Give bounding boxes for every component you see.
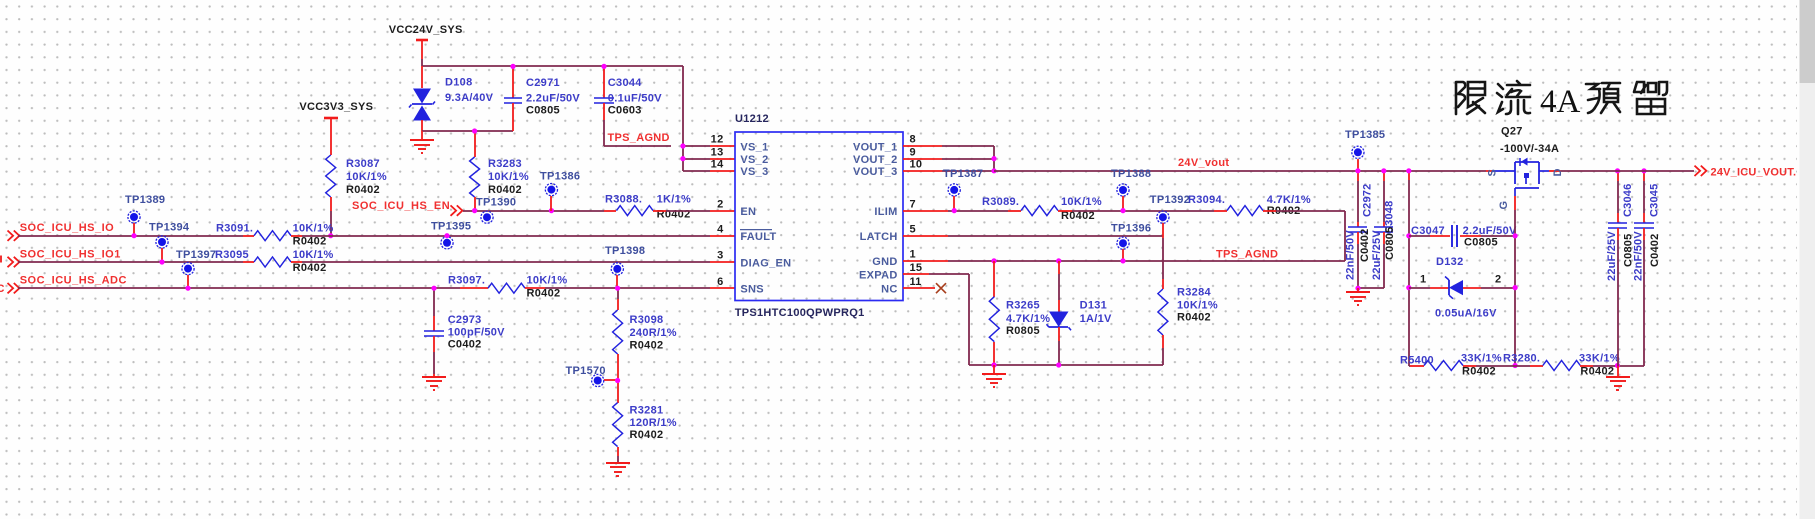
svg-text:TP1385: TP1385: [1345, 129, 1385, 141]
svg-text:R0402: R0402: [527, 288, 561, 300]
svg-text:R3265: R3265: [1006, 300, 1040, 312]
svg-text:C: C: [0, 283, 5, 295]
svg-text:C2973: C2973: [448, 314, 482, 326]
svg-text:2: 2: [1495, 274, 1501, 286]
svg-text:R0805: R0805: [1006, 325, 1040, 337]
svg-text:R3087: R3087: [346, 158, 380, 170]
svg-text:4A: 4A: [1540, 84, 1581, 120]
svg-text:R3095: R3095: [215, 249, 249, 261]
svg-text:0.05uA/16V: 0.05uA/16V: [1435, 307, 1497, 319]
svg-text:C0805: C0805: [526, 105, 560, 117]
svg-text:TP1394: TP1394: [149, 222, 190, 234]
svg-text:GND: GND: [872, 256, 897, 268]
svg-text:10K/1%: 10K/1%: [346, 171, 387, 183]
svg-text:R0402: R0402: [488, 184, 522, 196]
svg-text:R3094.: R3094.: [1188, 194, 1225, 206]
svg-text:C2972: C2972: [1362, 184, 1374, 217]
svg-text:D132: D132: [1436, 256, 1464, 268]
svg-text:TP1389: TP1389: [125, 194, 165, 206]
svg-text:R0402: R0402: [1177, 312, 1211, 324]
svg-text:14: 14: [711, 159, 724, 171]
svg-text:120R/1%: 120R/1%: [630, 417, 677, 429]
svg-text:11: 11: [910, 276, 922, 288]
svg-text:TP1570: TP1570: [566, 365, 606, 377]
svg-text:C3045: C3045: [1649, 184, 1661, 217]
svg-text:4.7K/1%: 4.7K/1%: [1006, 313, 1050, 325]
svg-text:EXPAD: EXPAD: [859, 270, 898, 282]
svg-text:SNS: SNS: [740, 284, 764, 296]
svg-text:NC: NC: [881, 284, 898, 296]
svg-text:VCC24V_SYS: VCC24V_SYS: [389, 24, 463, 36]
svg-text:100pF/50V: 100pF/50V: [448, 327, 505, 339]
svg-text:TP1390: TP1390: [476, 197, 516, 209]
svg-text:1: 1: [910, 249, 916, 261]
svg-text:R0402: R0402: [346, 184, 380, 196]
svg-text:C3046: C3046: [1622, 184, 1634, 217]
svg-text:R0402: R0402: [1462, 366, 1496, 378]
svg-text:C0402: C0402: [1359, 229, 1371, 262]
svg-text:10K/1%: 10K/1%: [527, 275, 568, 287]
svg-text:TP1388: TP1388: [1111, 168, 1151, 180]
svg-text:Q27: Q27: [1501, 126, 1523, 138]
svg-text:10K/1%: 10K/1%: [293, 249, 334, 261]
svg-text:R0402: R0402: [293, 262, 327, 274]
svg-text:D131: D131: [1080, 300, 1108, 312]
svg-text:TP1387: TP1387: [943, 168, 983, 180]
svg-text:R0402: R0402: [1580, 366, 1614, 378]
svg-text:TP1386: TP1386: [540, 171, 580, 183]
svg-text:S: S: [1487, 169, 1499, 177]
svg-text:2.2uF/50V: 2.2uF/50V: [526, 93, 580, 105]
svg-text:VOUT_2: VOUT_2: [853, 154, 898, 166]
svg-text:4: 4: [717, 223, 724, 235]
svg-text:24V_vout: 24V_vout: [1178, 157, 1229, 169]
svg-text:24V_ICU_VOUT.: 24V_ICU_VOUT.: [1711, 167, 1797, 179]
svg-text:33K/1%: 33K/1%: [1579, 353, 1620, 365]
svg-text:C0402: C0402: [448, 338, 482, 350]
svg-text:12: 12: [711, 134, 724, 146]
svg-text:TP1398: TP1398: [605, 245, 645, 257]
svg-text:C0805: C0805: [1384, 227, 1396, 260]
svg-text:TP1396: TP1396: [1111, 223, 1151, 235]
svg-text:R3281: R3281: [630, 405, 664, 417]
svg-text:1K/1%: 1K/1%: [657, 194, 692, 206]
svg-text:U1212: U1212: [735, 113, 769, 125]
svg-text:SOC_ICU_HS_ADC: SOC_ICU_HS_ADC: [20, 275, 127, 287]
svg-text:C3044: C3044: [608, 77, 642, 89]
svg-text:R3280.: R3280.: [1503, 353, 1540, 365]
svg-text:10K/1%: 10K/1%: [293, 222, 334, 234]
svg-text:1A/1V: 1A/1V: [1080, 313, 1112, 325]
svg-text:VCC3V3_SYS: VCC3V3_SYS: [299, 101, 373, 113]
svg-text:G: G: [1498, 201, 1510, 210]
svg-text:22uF/25V: 22uF/25V: [1371, 230, 1383, 280]
svg-text:TP1395: TP1395: [431, 221, 471, 233]
svg-text:22uF/25V: 22uF/25V: [1606, 231, 1618, 281]
svg-text:VOUT_3: VOUT_3: [853, 166, 898, 178]
svg-text:DIAG_EN: DIAG_EN: [740, 257, 791, 269]
svg-text:D: D: [1552, 168, 1564, 176]
svg-text:R3088.: R3088.: [605, 194, 642, 206]
svg-text:SOC_ICU_HS_EN: SOC_ICU_HS_EN: [352, 200, 450, 212]
svg-text:R3089.: R3089.: [982, 196, 1019, 208]
svg-text:R0402: R0402: [293, 235, 327, 247]
svg-text:10K/1%: 10K/1%: [1177, 300, 1218, 312]
svg-text:LATCH: LATCH: [860, 231, 898, 243]
svg-text:3: 3: [717, 250, 723, 262]
svg-text:9: 9: [910, 146, 916, 158]
svg-text:13: 13: [711, 146, 724, 158]
svg-text:R5400: R5400: [1400, 355, 1434, 367]
svg-text:TP1392: TP1392: [1150, 194, 1190, 206]
svg-text:2.2uF/50V: 2.2uF/50V: [1463, 225, 1517, 237]
svg-text:D108: D108: [445, 77, 473, 89]
svg-text:C3047: C3047: [1411, 225, 1445, 237]
svg-text:10K/1%: 10K/1%: [488, 171, 529, 183]
svg-text:R0402: R0402: [630, 340, 664, 352]
svg-text:TPS_AGND: TPS_AGND: [608, 132, 670, 144]
svg-text:VS_1: VS_1: [740, 141, 768, 153]
svg-text:22nF/50V: 22nF/50V: [1345, 230, 1357, 280]
svg-text:R3098: R3098: [630, 314, 664, 326]
svg-text:R3091.: R3091.: [216, 222, 253, 234]
svg-text:C0805: C0805: [1464, 237, 1498, 249]
svg-text:TP1397: TP1397: [176, 249, 216, 261]
svg-text:C0603: C0603: [608, 105, 642, 117]
svg-text:SOC_ICU_HS_IO1: SOC_ICU_HS_IO1: [20, 248, 121, 260]
svg-text:VS_2: VS_2: [740, 154, 768, 166]
svg-text:5: 5: [910, 223, 916, 235]
svg-text:SOC_ICU_HS_IO: SOC_ICU_HS_IO: [20, 222, 115, 234]
svg-text:10: 10: [910, 159, 923, 171]
svg-text:R0402: R0402: [630, 429, 664, 441]
svg-text:EN: EN: [740, 206, 756, 218]
svg-text:FAULT: FAULT: [740, 231, 776, 243]
svg-text:7: 7: [910, 198, 916, 210]
svg-text:33K/1%: 33K/1%: [1461, 353, 1502, 365]
svg-text:VOUT_1: VOUT_1: [853, 141, 898, 153]
svg-text:VS_3: VS_3: [740, 166, 768, 178]
svg-text:15: 15: [910, 262, 923, 274]
svg-text:6: 6: [717, 276, 723, 288]
svg-text:22nF/50V: 22nF/50V: [1633, 231, 1645, 281]
svg-text:8: 8: [910, 134, 916, 146]
svg-text:10K/1%: 10K/1%: [1061, 196, 1102, 208]
svg-text:1: 1: [1420, 274, 1426, 286]
svg-text:2: 2: [717, 198, 723, 210]
svg-text:R3283: R3283: [488, 158, 522, 170]
svg-text:R3097.: R3097.: [448, 275, 485, 287]
svg-text:TPS1HTC100QPWPRQ1: TPS1HTC100QPWPRQ1: [735, 307, 865, 319]
svg-text:0.1uF/50V: 0.1uF/50V: [608, 93, 662, 105]
svg-text:TPS_AGND: TPS_AGND: [1216, 249, 1278, 261]
svg-text:9.3A/40V: 9.3A/40V: [445, 92, 494, 104]
svg-text:-100V/-34A: -100V/-34A: [1500, 143, 1559, 155]
svg-text:ILIM: ILIM: [874, 206, 897, 218]
svg-text:240R/1%: 240R/1%: [630, 327, 677, 339]
svg-text:C0402: C0402: [1649, 234, 1661, 267]
svg-text:R3284: R3284: [1177, 286, 1211, 298]
svg-text:C2971: C2971: [526, 77, 560, 89]
